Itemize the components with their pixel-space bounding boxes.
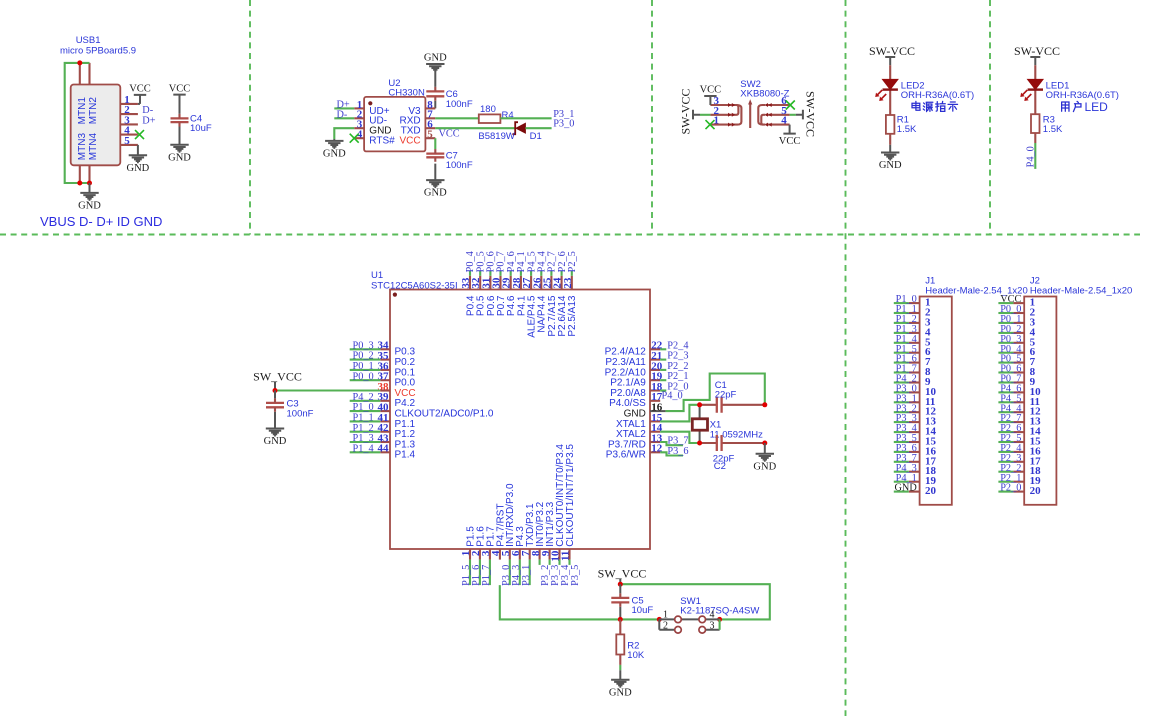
junction bbox=[762, 441, 767, 446]
wire U1 pin6 bbox=[519, 560, 521, 586]
svg-text:100nF: 100nF bbox=[446, 99, 473, 110]
power flag GND (C3) bbox=[266, 429, 284, 436]
svg-text:B5819W: B5819W bbox=[478, 131, 514, 142]
junction bbox=[762, 402, 767, 407]
svg-text:C2: C2 bbox=[714, 461, 726, 472]
wire U1 pin15 to X1 bbox=[660, 405, 699, 422]
wire U1 pin24 bbox=[561, 271, 563, 276]
wire J1 pin20 bbox=[894, 491, 909, 493]
svg-text:VCC: VCC bbox=[129, 84, 151, 95]
power flag SW_VCC (reset) bbox=[619, 579, 621, 585]
wire U1 pin12 bbox=[660, 452, 683, 455]
power flag VCC (C4) bbox=[173, 95, 185, 104]
resistor R4 bbox=[479, 104, 514, 123]
power flag SW-VCC rotated (SW2 pin5) bbox=[796, 110, 803, 120]
wire J2 pin13 bbox=[998, 421, 1013, 423]
wire U1 pin23 bbox=[571, 271, 573, 276]
svg-text:4: 4 bbox=[710, 610, 715, 621]
svg-text:2: 2 bbox=[663, 620, 668, 631]
svg-text:VBUS D- D+ ID GND: VBUS D- D+ ID GND bbox=[40, 214, 162, 229]
power flag GND (R2) bbox=[611, 680, 629, 687]
svg-text:P2_5: P2_5 bbox=[567, 251, 578, 272]
connector J2 Header-Male-2.54_1x20 bbox=[1013, 276, 1132, 505]
LED LED1 bbox=[1020, 65, 1119, 114]
svg-text:1: 1 bbox=[663, 610, 668, 621]
wire U1 pin27 bbox=[530, 271, 532, 276]
capacitor C4 bbox=[171, 101, 212, 145]
svg-text:VCC: VCC bbox=[700, 85, 722, 96]
svg-text:4: 4 bbox=[781, 115, 787, 127]
USB connector USB1 bbox=[60, 35, 138, 183]
wire U1 pin3 bbox=[489, 560, 491, 586]
wire U1 pin30 bbox=[499, 271, 501, 276]
wire U1 pin36 bbox=[350, 369, 381, 371]
wire U1 pin43 bbox=[350, 441, 381, 443]
svg-text:1.5K: 1.5K bbox=[897, 124, 917, 135]
power flag SW-VCC (LED1) bbox=[1030, 57, 1040, 65]
wire USB1 VBUS loop bbox=[65, 63, 90, 183]
svg-text:SW_VCC: SW_VCC bbox=[598, 567, 647, 581]
no-connect pin4 bbox=[135, 130, 144, 139]
IC U2 CH330N bbox=[354, 78, 435, 151]
wire U1 pin26 bbox=[540, 271, 542, 276]
wire J1 pin3 bbox=[894, 322, 909, 324]
svg-text:23: 23 bbox=[562, 277, 574, 289]
svg-text:GND: GND bbox=[168, 152, 191, 163]
svg-text:3: 3 bbox=[710, 620, 715, 631]
wire U1 pin19 bbox=[660, 379, 666, 381]
svg-text:LED: LED bbox=[1085, 100, 1109, 114]
wire U1 pin20 bbox=[660, 369, 666, 371]
svg-text:10K: 10K bbox=[627, 650, 645, 661]
wire U1 pin39 bbox=[350, 400, 381, 402]
label 电源指示 bbox=[912, 101, 958, 111]
svg-text:micro 5PBoard5.9: micro 5PBoard5.9 bbox=[60, 45, 136, 56]
wire U1 pin32 bbox=[479, 271, 481, 276]
svg-text:SW-VCC: SW-VCC bbox=[1014, 44, 1060, 58]
wire U1 pin28 bbox=[520, 271, 522, 276]
wire J1 pin12 bbox=[894, 411, 909, 413]
svg-text:10uF: 10uF bbox=[632, 605, 654, 616]
wire J1 pin4 bbox=[894, 332, 909, 334]
diode D1 B5819W bbox=[478, 122, 541, 142]
power flag SW-VCC (LED2) bbox=[885, 57, 895, 65]
wire U2 pin5 to C7 bbox=[434, 138, 436, 149]
power flag VCC (USB1 pin1) bbox=[138, 103, 140, 105]
svg-text:100nF: 100nF bbox=[287, 408, 314, 419]
wire J1 pin1 bbox=[894, 302, 909, 304]
svg-text:SW-VCC: SW-VCC bbox=[679, 88, 693, 134]
section divider horizontal bbox=[0, 234, 1140, 236]
wire U1 pin11 bbox=[568, 560, 570, 565]
wire U2 pin1 bbox=[334, 107, 354, 109]
junction bbox=[657, 617, 662, 622]
junction bbox=[697, 402, 702, 407]
svg-text:P3_0: P3_0 bbox=[553, 119, 574, 130]
wire J2 pin3 bbox=[998, 322, 1013, 324]
svg-text:P1_7: P1_7 bbox=[481, 565, 492, 586]
svg-text:P3.6/WR: P3.6/WR bbox=[606, 450, 646, 461]
wire J1 pin17 bbox=[894, 461, 909, 463]
crystal X1 bbox=[692, 405, 763, 443]
wire J1 pin2 bbox=[894, 312, 909, 314]
svg-text:180: 180 bbox=[480, 104, 496, 115]
wire U1 pin5 bbox=[509, 560, 511, 586]
power flag GND (R1) bbox=[881, 153, 899, 160]
resistor R3 bbox=[1031, 114, 1063, 135]
svg-text:22pF: 22pF bbox=[715, 389, 737, 400]
wire U1 pin37 bbox=[350, 379, 381, 381]
wire J1 pin8 bbox=[894, 371, 909, 373]
svg-text:GND: GND bbox=[264, 436, 287, 447]
svg-text:5: 5 bbox=[124, 135, 130, 147]
svg-text:Header-Male-2.54_1x20: Header-Male-2.54_1x20 bbox=[1030, 285, 1132, 296]
wire J1 pin18 bbox=[894, 471, 909, 473]
svg-text:MTN1: MTN1 bbox=[77, 97, 88, 125]
section divider vertical 4 bbox=[989, 0, 991, 235]
wire U2 pin2 bbox=[334, 117, 354, 119]
power flag GND (C4) bbox=[170, 145, 188, 152]
svg-text:D+: D+ bbox=[142, 115, 155, 126]
svg-text:P4_0: P4_0 bbox=[1025, 146, 1036, 167]
wire SW2 pin5 bbox=[790, 114, 796, 116]
wire U1 pin10 bbox=[558, 560, 560, 565]
wire J2 pin4 bbox=[998, 332, 1013, 334]
svg-text:GND: GND bbox=[879, 160, 902, 171]
power flag GND (crystal) bbox=[764, 443, 766, 454]
wire pin4 to reset node bbox=[500, 585, 660, 619]
svg-text:D1: D1 bbox=[530, 131, 542, 142]
LED LED2 bbox=[875, 65, 974, 115]
wire J2 pin1 bbox=[998, 302, 1013, 304]
wire U1 pin41 bbox=[350, 420, 381, 422]
wire J1 pin7 bbox=[894, 362, 909, 364]
svg-text:GND: GND bbox=[753, 461, 776, 472]
U1 top pins 33-23 bbox=[460, 276, 578, 338]
label 用户LED bbox=[1062, 100, 1109, 114]
svg-text:K2-1187SQ-A4SW: K2-1187SQ-A4SW bbox=[680, 606, 759, 617]
svg-text:GND: GND bbox=[323, 149, 346, 160]
svg-text:SW-VCC: SW-VCC bbox=[804, 91, 818, 137]
pushbutton SW1 K2-1187SQ-A4SW bbox=[659, 596, 759, 633]
wire J1 pin19 bbox=[894, 481, 909, 483]
wire R2 to GND bbox=[619, 655, 621, 665]
capacitor C6 bbox=[426, 71, 473, 110]
wire U1 pin2 bbox=[479, 560, 481, 586]
power flag VCC (SW2 pin4) bbox=[783, 125, 795, 134]
wire U1 pin42 bbox=[350, 431, 381, 433]
power flag VCC (SW2 pin3) bbox=[704, 96, 716, 105]
svg-text:P2_0: P2_0 bbox=[1000, 483, 1021, 494]
svg-text:MTN4: MTN4 bbox=[88, 133, 99, 161]
wire J1 pin9 bbox=[894, 381, 909, 383]
wire J2 pin18 bbox=[998, 471, 1013, 473]
wire J2 pin16 bbox=[998, 451, 1013, 453]
junction bbox=[87, 181, 92, 186]
wire U1 pin7 bbox=[529, 560, 531, 586]
power flag SW_VCC (C3) bbox=[274, 382, 276, 391]
power flag GND (USB1 shield) bbox=[89, 183, 91, 193]
svg-text:GND: GND bbox=[424, 188, 447, 199]
capacitor C5 bbox=[611, 584, 653, 619]
wire U1 pin1 bbox=[469, 560, 471, 586]
resistor R2 bbox=[616, 619, 645, 661]
capacitor C1 bbox=[700, 380, 765, 413]
wire U2 pin6 to D1 bbox=[435, 127, 515, 129]
wire U1 pin31 bbox=[489, 271, 491, 276]
wire R4 to P3_1 bbox=[500, 117, 551, 119]
svg-text:VCC: VCC bbox=[779, 136, 801, 147]
svg-text:20: 20 bbox=[1030, 485, 1042, 497]
wire SW2 pin2 bbox=[700, 114, 710, 116]
svg-text:VCC: VCC bbox=[169, 83, 191, 94]
junction bbox=[618, 582, 623, 587]
power flag GND (USB1 pin5) bbox=[137, 145, 139, 155]
junction bbox=[618, 617, 623, 622]
wire J2 pin11 bbox=[998, 401, 1013, 403]
wire J1 pin13 bbox=[894, 421, 909, 423]
power flag SW-VCC rotated (SW2 pin2) bbox=[693, 110, 700, 120]
wire J2 pin12 bbox=[998, 411, 1013, 413]
svg-text:VCC: VCC bbox=[439, 129, 460, 140]
svg-text:ORH-R36A(0.6T): ORH-R36A(0.6T) bbox=[901, 90, 974, 101]
svg-text:P0_0: P0_0 bbox=[353, 371, 374, 382]
wire D1 to P3_0 bbox=[525, 127, 551, 129]
svg-text:P3_5: P3_5 bbox=[570, 565, 581, 586]
wire U1 pin18 bbox=[660, 389, 666, 391]
svg-text:P3_6: P3_6 bbox=[667, 446, 688, 457]
wire J2 pin7 bbox=[998, 362, 1013, 364]
svg-text:SW_VCC: SW_VCC bbox=[253, 369, 302, 383]
wire R1 to GND bbox=[889, 134, 891, 145]
wire J2 pin17 bbox=[998, 461, 1013, 463]
section divider vertical 1 bbox=[249, 0, 251, 235]
wire U1 pin16 to crystal GND bbox=[666, 374, 765, 412]
junction bbox=[717, 617, 722, 622]
svg-text:1.5K: 1.5K bbox=[1043, 124, 1063, 135]
svg-text:GND: GND bbox=[424, 53, 447, 64]
wire J1 pin15 bbox=[894, 441, 909, 443]
svg-text:VCC: VCC bbox=[399, 136, 420, 147]
section divider vertical 3 (full height) bbox=[845, 0, 847, 716]
no-connect SW2 pin1 bbox=[706, 120, 715, 129]
svg-text:MTN2: MTN2 bbox=[88, 97, 99, 125]
wire U1 pin25 bbox=[550, 271, 552, 276]
wire U1 pin8 bbox=[539, 560, 541, 565]
junction bbox=[697, 441, 702, 446]
wire U1 pin29 bbox=[510, 271, 512, 276]
svg-text:GND: GND bbox=[78, 201, 101, 212]
wire J2 pin2 bbox=[998, 312, 1013, 314]
svg-text:10uF: 10uF bbox=[190, 123, 212, 134]
wire U2 pin7 to R4 bbox=[435, 117, 479, 119]
wire U1 pin40 bbox=[350, 410, 381, 412]
svg-text:P4_0: P4_0 bbox=[662, 390, 683, 401]
wire J2 pin20 bbox=[998, 491, 1013, 493]
wire U2 pin3 to ground bbox=[334, 128, 354, 139]
power flag GND (C6 top) bbox=[426, 64, 444, 71]
wire R3 to P4_0 bbox=[1034, 133, 1036, 143]
connector J1 Header-Male-2.54_1x20 bbox=[909, 276, 1028, 505]
IC U1 STC12C5A60S2-35I bbox=[371, 270, 650, 549]
svg-text:20: 20 bbox=[925, 485, 937, 497]
switch SW2 XKB8080-Z bbox=[710, 79, 789, 128]
wire J1 pin10 bbox=[894, 391, 909, 393]
junction bbox=[77, 181, 82, 186]
wire J2 pin5 bbox=[998, 342, 1013, 344]
wire U1 pin9 bbox=[549, 560, 551, 565]
wire U1 pin21 bbox=[660, 359, 666, 361]
wire U1 pin44 bbox=[350, 451, 381, 453]
wire U1 pin35 bbox=[350, 359, 381, 361]
U1 left pins 34-44 bbox=[378, 340, 494, 461]
U1 right pins 22-12 bbox=[605, 340, 666, 461]
svg-text:100nF: 100nF bbox=[446, 160, 473, 171]
junction bbox=[273, 388, 278, 393]
wire U1 pin34 bbox=[350, 348, 381, 350]
svg-text:P3_1: P3_1 bbox=[521, 565, 532, 586]
svg-text:GND: GND bbox=[894, 483, 917, 494]
wire U1 pin22 bbox=[660, 348, 666, 350]
wire U1 pin33 bbox=[469, 271, 471, 276]
no-connect U2 pin4 bbox=[350, 134, 359, 143]
wire J2 pin14 bbox=[998, 431, 1013, 433]
capacitor C2 bbox=[700, 435, 765, 472]
wire SW_VCC to U1 pin38 bbox=[275, 389, 380, 391]
wire SW_VCC loop to SW1 bbox=[620, 584, 770, 619]
wire J1 pin6 bbox=[894, 352, 909, 354]
svg-text:ORH-R36A(0.6T): ORH-R36A(0.6T) bbox=[1046, 90, 1119, 101]
svg-text:P1_4: P1_4 bbox=[353, 443, 374, 454]
svg-text:RTS#: RTS# bbox=[369, 136, 395, 147]
capacitor C7 bbox=[426, 149, 473, 180]
svg-text:P2.5/A13: P2.5/A13 bbox=[567, 295, 578, 337]
power flag GND (C7) bbox=[426, 180, 444, 187]
wire U1 pin14 to X1 bbox=[660, 432, 699, 443]
wire J1 pin14 bbox=[894, 431, 909, 433]
svg-text:5: 5 bbox=[427, 129, 433, 141]
wire U1 pin13 bbox=[660, 442, 683, 445]
svg-text:11: 11 bbox=[560, 551, 572, 561]
power flag GND (U2 pin3) bbox=[333, 139, 335, 141]
wire J1 pin5 bbox=[894, 342, 909, 344]
svg-text:SW-VCC: SW-VCC bbox=[869, 44, 915, 58]
capacitor C3 bbox=[266, 391, 314, 429]
wire J2 pin19 bbox=[998, 481, 1013, 483]
resistor R1 bbox=[886, 115, 917, 136]
wire J2 pin10 bbox=[998, 391, 1013, 393]
section divider vertical 2 bbox=[651, 0, 653, 235]
svg-text:MTN3: MTN3 bbox=[77, 133, 88, 161]
U1 bottom pins 1-11 bbox=[460, 444, 576, 562]
wire J2 pin9 bbox=[998, 381, 1013, 383]
svg-text:D-: D- bbox=[337, 109, 348, 120]
wire J2 pin6 bbox=[998, 352, 1013, 354]
wire J2 pin8 bbox=[998, 371, 1013, 373]
wire J1 pin11 bbox=[894, 401, 909, 403]
svg-text:GND: GND bbox=[609, 687, 632, 698]
svg-text:P1.4: P1.4 bbox=[395, 450, 416, 461]
wire J2 pin15 bbox=[998, 441, 1013, 443]
svg-text:CLKOUT1/INT/T1/P3.5: CLKOUT1/INT/T1/P3.5 bbox=[565, 444, 576, 547]
wire J1 pin16 bbox=[894, 451, 909, 453]
no-connect SW2 pin6 bbox=[786, 101, 795, 110]
junction bbox=[77, 60, 82, 65]
svg-text:GND: GND bbox=[127, 163, 150, 174]
